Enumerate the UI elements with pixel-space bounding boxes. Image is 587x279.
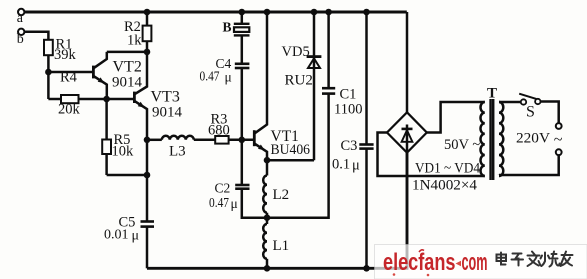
terminal mains top <box>556 123 562 129</box>
node L2-L1-C2-C1 <box>264 214 271 221</box>
bridge rectifier VD1-VD4 <box>387 112 481 193</box>
svg-text:μ: μ <box>352 158 360 174</box>
inductor L3 <box>147 139 162 142</box>
svg-text:39k: 39k <box>54 47 77 63</box>
svg-text:9014: 9014 <box>152 105 183 121</box>
svg-text:50V ~: 50V ~ <box>444 137 480 153</box>
svg-text:com: com <box>462 249 488 276</box>
svg-text:R4: R4 <box>60 70 78 86</box>
svg-text:0.1: 0.1 <box>332 157 350 173</box>
svg-text:T: T <box>487 86 497 102</box>
svg-text:a: a <box>17 11 24 26</box>
capacitor C3 <box>365 12 368 144</box>
diode VD5 <box>282 12 322 160</box>
wire bridge AC right to secondary top <box>427 102 485 133</box>
node C3 bottom <box>363 265 370 272</box>
svg-text:C1: C1 <box>340 87 357 103</box>
wire R1 bottom <box>47 55 50 72</box>
elecfans watermark box <box>375 245 587 279</box>
node L1 bottom <box>264 265 271 272</box>
wire b to R1 <box>24 32 48 40</box>
Chinese caption 电子发烧友 <box>497 252 573 267</box>
node VT1 emitter <box>264 157 271 164</box>
node top rail C3 <box>363 9 370 16</box>
node R1-base junction <box>45 69 52 76</box>
wire VD5 to emitter <box>267 159 314 162</box>
wire to R4 <box>48 98 61 101</box>
wire bottom rail <box>147 153 407 269</box>
svg-text:BU406: BU406 <box>271 142 311 158</box>
terminal mains bottom <box>556 149 562 155</box>
wire down to R4 <box>47 72 50 99</box>
node top rail R2 <box>144 9 151 16</box>
svg-text:VT3: VT3 <box>151 89 180 106</box>
svg-text:b: b <box>17 32 24 47</box>
inductor L2 <box>266 160 269 175</box>
resistor R3 <box>215 136 228 144</box>
svg-text:L3: L3 <box>169 144 186 160</box>
resistor R5 <box>105 99 108 140</box>
svg-text:0.47: 0.47 <box>209 195 229 210</box>
capacitor C4 <box>235 62 250 65</box>
node top rail B <box>239 9 246 16</box>
svg-text:μ: μ <box>132 229 140 244</box>
node R2 bottom <box>144 49 151 56</box>
terminal a <box>18 9 24 15</box>
node VT1 collector top <box>264 9 271 16</box>
wire top rail <box>24 11 406 14</box>
elecfans logo <box>383 249 488 276</box>
wire bridge AC left to secondary bottom <box>378 133 485 177</box>
transistor VT3 <box>134 52 182 140</box>
node R3-C4-C2-base <box>239 137 246 144</box>
resistor R4 <box>61 95 79 103</box>
svg-text:20k: 20k <box>58 102 81 118</box>
terminal b <box>18 29 24 35</box>
svg-text:0.01: 0.01 <box>104 228 129 243</box>
wire top rail corner to bridge <box>406 12 409 112</box>
wire mains bottom to primary <box>499 155 559 175</box>
node top rail VD5 <box>311 9 318 16</box>
node R5 foot <box>144 172 151 179</box>
node top rail C1 <box>325 9 332 16</box>
svg-text:μ: μ <box>231 196 238 211</box>
svg-text:0.47: 0.47 <box>200 69 220 84</box>
svg-text:RU2: RU2 <box>285 73 313 89</box>
capacitor C2 <box>241 140 244 185</box>
svg-text:S: S <box>526 104 535 121</box>
svg-text:C3: C3 <box>341 138 358 154</box>
svg-text:μ: μ <box>225 70 232 85</box>
transducer B <box>223 12 250 64</box>
capacitor C1 <box>327 12 330 88</box>
svg-text:~: ~ <box>554 132 563 149</box>
switch S <box>519 94 540 121</box>
svg-text:VT2: VT2 <box>113 59 142 76</box>
node emitter junction <box>103 96 110 103</box>
svg-text:VD5: VD5 <box>282 44 310 60</box>
transistor VT1 <box>254 12 310 160</box>
svg-text:220V: 220V <box>516 131 550 147</box>
svg-text:L1: L1 <box>273 238 290 254</box>
svg-text:VD1 ~ VD4: VD1 ~ VD4 <box>415 161 481 177</box>
wire primary top to switch <box>499 101 521 104</box>
wire switch to mains terminal <box>541 102 559 124</box>
transformer T <box>480 86 503 181</box>
capacitor C5 <box>141 220 155 223</box>
svg-text:C2: C2 <box>215 181 231 196</box>
svg-text:1N4002×4: 1N4002×4 <box>412 178 478 194</box>
resistor R1 <box>44 40 53 55</box>
resistor R2 <box>146 12 149 26</box>
svg-text:1100: 1100 <box>334 102 362 118</box>
wire VT3 emitter column down <box>146 140 149 222</box>
svg-text:680: 680 <box>208 123 230 139</box>
transistor VT2 <box>93 52 142 99</box>
svg-text:elecfans: elecfans <box>383 249 456 276</box>
svg-text:9014: 9014 <box>112 75 143 91</box>
svg-text:L2: L2 <box>273 187 290 203</box>
wire VT2 collector to R2 foot <box>107 51 147 54</box>
node L3 branch <box>144 137 151 144</box>
wire primary bottom <box>498 174 501 177</box>
svg-text:B: B <box>223 20 232 35</box>
inductor L1 <box>266 218 269 224</box>
wire R4 to VT3 base <box>79 98 134 101</box>
svg-text:1k: 1k <box>127 33 142 49</box>
wire base VT2 <box>48 71 92 74</box>
svg-text:10k: 10k <box>112 144 135 160</box>
